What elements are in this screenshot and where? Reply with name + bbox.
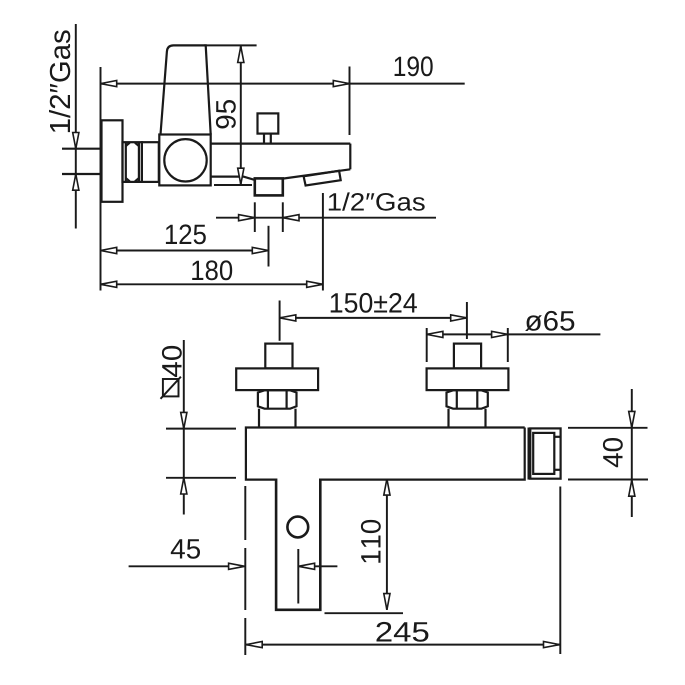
leg hole circle — [287, 517, 308, 538]
text 150+-24 — [331, 293, 417, 313]
dim 180 line — [101, 283, 323, 285]
extension handle top — [204, 44, 257, 46]
extension body bottom right — [568, 479, 648, 481]
knob stem — [264, 134, 271, 144]
arrow right 180 — [307, 281, 323, 287]
dim 40 right line — [631, 389, 633, 517]
handwheel circle — [164, 139, 206, 181]
spout top edge — [211, 143, 351, 145]
dim 95 line — [240, 46, 242, 185]
diverter knob — [258, 113, 279, 133]
arrow up 40r — [629, 480, 635, 496]
left neck — [259, 409, 296, 428]
text 125 — [166, 224, 206, 244]
dim 245 line — [246, 644, 560, 646]
extension line nozzle vertical — [322, 193, 324, 291]
leg centerline — [297, 549, 299, 604]
extension line left union center — [279, 301, 281, 341]
text 95 rotated — [216, 100, 236, 129]
extension escutcheon right edge — [507, 328, 509, 362]
dim o65 line — [427, 333, 601, 335]
text 45 — [171, 539, 200, 559]
end cap tick bottom — [554, 469, 560, 471]
arrow down 95 — [238, 168, 244, 184]
arrow right 245 — [544, 642, 560, 648]
inlet pipe top line — [62, 148, 102, 150]
right hex nut — [447, 390, 488, 408]
diverter outlet — [255, 178, 283, 195]
arrow left 150 — [280, 315, 296, 321]
text 110 rotated — [361, 520, 381, 563]
arrow right 190 — [333, 81, 349, 87]
left escutcheon — [236, 368, 318, 390]
extension body top left — [166, 428, 236, 430]
hand shower leg — [276, 479, 320, 610]
dim 45 line left part — [129, 565, 229, 567]
arrow left 190 — [101, 81, 117, 87]
arrow up 95 — [238, 46, 244, 62]
extension tick diverter right — [282, 202, 284, 232]
extension 245 right — [559, 487, 561, 655]
dim 110 line — [386, 479, 388, 610]
extension center diverter — [268, 226, 270, 267]
extension body bottom left — [166, 477, 236, 479]
text 190 — [395, 56, 433, 76]
extension line right union center — [466, 302, 468, 339]
arrow left 245 — [246, 642, 262, 648]
arrow left 45 — [298, 563, 314, 569]
label 1/2"Gas rotated (wall inlet) — [49, 30, 70, 132]
extension dashed body left edge — [244, 486, 246, 655]
arrow right 45 — [229, 563, 245, 569]
arrow down sq40 — [181, 412, 187, 428]
arrow up 110 — [384, 479, 390, 495]
text 180 — [192, 260, 232, 280]
text 1/2"Gas spout — [329, 192, 425, 210]
extension tick diverter left — [254, 202, 256, 232]
aerator nozzle — [304, 171, 341, 186]
spout underside left — [211, 177, 255, 180]
right escutcheon — [427, 368, 509, 390]
lever handle — [161, 45, 211, 134]
body bar main — [246, 428, 525, 480]
left hex nut — [258, 390, 297, 408]
arrow up at pipe bottom — [73, 174, 79, 190]
arrow up sq40 — [181, 478, 187, 494]
dim line 1/2Gas spout — [216, 217, 436, 219]
arrow right at diverter left — [239, 215, 255, 221]
dim line 1/2Gas vertical — [75, 24, 77, 229]
dim 45 line right part — [315, 565, 338, 567]
dim 125 line — [101, 250, 269, 252]
text o65 — [525, 311, 574, 331]
right neck — [449, 409, 486, 428]
inlet pipe bottom line — [62, 173, 102, 175]
arrow down 40r — [629, 411, 635, 427]
text 40 rotated left — [162, 346, 182, 377]
text 245 — [377, 622, 429, 642]
wall extension line — [100, 67, 102, 291]
end cap outer — [530, 428, 560, 478]
arrow right o65 — [492, 331, 508, 337]
arrow right 150 — [451, 315, 467, 321]
spout tip edge — [349, 144, 351, 170]
wall flange — [102, 120, 123, 202]
hex nut (side view) — [123, 142, 142, 182]
mixer body block — [159, 135, 210, 186]
union collar — [142, 142, 159, 182]
left union knob — [265, 344, 292, 369]
extension leg bottom — [325, 612, 404, 614]
arrow right 125 — [252, 247, 268, 253]
end cap inner — [533, 433, 554, 474]
extension body top right — [568, 427, 648, 429]
arrow left o65 — [427, 331, 443, 337]
extension escutcheon left edge — [426, 328, 428, 362]
right union knob — [454, 344, 481, 369]
extension body bottom right — [214, 184, 252, 186]
arrow down at pipe top — [73, 133, 79, 149]
dim square40 line — [183, 340, 185, 515]
extension line spout tip — [349, 67, 351, 136]
dim 190 line — [101, 83, 465, 85]
dim 150+-24 line — [280, 317, 467, 319]
arrow left 125 — [101, 247, 117, 253]
body joint line — [527, 428, 529, 480]
arrow left 180 — [101, 281, 117, 287]
square symbol — [161, 377, 181, 399]
arrow down 110 — [384, 594, 390, 610]
end cap tick top — [554, 436, 560, 438]
text 40 rotated right — [603, 438, 623, 467]
spout underside right — [283, 169, 351, 178]
arrow left at diverter right — [283, 215, 299, 221]
